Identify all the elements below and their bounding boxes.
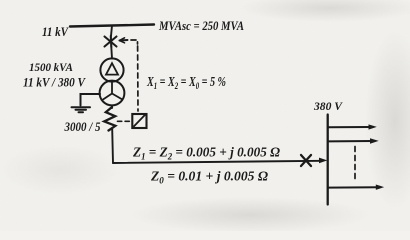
svg-text:11 kV / 380 V: 11 kV / 380 V (23, 76, 86, 90)
wire breaker to transformer (110, 47, 113, 59)
transformer T1 primary winding (delta) (100, 58, 123, 81)
transformer T1 secondary winding (wye) (100, 81, 125, 106)
wire busbar to breaker (111, 26, 112, 37)
arrowhead at busbar (319, 158, 327, 164)
feeder arrow 3 (328, 186, 378, 188)
svg-text:3000 / 5: 3000 / 5 (64, 120, 101, 134)
trip-circuit dashed wire (breaker to relay) (131, 40, 138, 44)
wire transformer neutral to ground (81, 94, 101, 106)
ground (72, 107, 91, 112)
wire CT down to feeder corner (111, 129, 114, 163)
wire transformer to CT (111, 105, 113, 108)
current transformer CT 3000/5 (zigzag) (104, 107, 115, 131)
svg-text:Z1 = Z2 = 0.005 + j 0.005 Ω: Z1 = Z2 = 0.005 + j 0.005 Ω (132, 145, 280, 162)
node 380 V busbar (327, 115, 329, 205)
svg-text:X1 = X2 = X0 = 5 %: X1 = X2 = X0 = 5 % (146, 74, 226, 91)
wye symbol (103, 83, 122, 100)
svg-text:380 V: 380 V (313, 99, 343, 113)
feeder arrow 1 (328, 126, 371, 128)
CT secondary dashed wire to relay (118, 120, 132, 122)
relay box (132, 114, 146, 128)
svg-text:11 kV: 11 kV (42, 25, 69, 39)
svg-text:1500 kVA: 1500 kVA (29, 60, 73, 74)
fault mark X on feeder (301, 155, 311, 166)
more-feeders dashed mark (354, 147, 356, 182)
feeder arrow 2 (328, 140, 373, 142)
main feeder line (to 380 V busbar) (113, 161, 322, 163)
svg-text:Z0 = 0.01 + j 0.005 Ω: Z0 = 0.01 + j 0.005 Ω (150, 169, 268, 186)
svg-text:MVAsc = 250 MVA: MVAsc = 250 MVA (158, 18, 244, 33)
relay diagonal (134, 115, 145, 127)
trip-circuit arrow (points left at breaker) (120, 38, 128, 43)
delta symbol (106, 63, 118, 74)
node 11 kV busbar (70, 25, 154, 27)
circuit breaker (X) (105, 36, 117, 47)
